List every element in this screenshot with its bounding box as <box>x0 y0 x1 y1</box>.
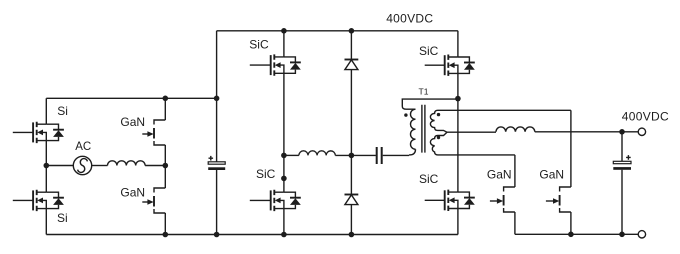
wire: sync GaN1 drain drop <box>514 155 516 187</box>
wire: PFC top rail <box>46 97 216 99</box>
AC source V1 <box>73 156 91 174</box>
wire: output cap vertical <box>621 132 623 235</box>
wire: AC source left lead <box>46 165 73 167</box>
transformer T1 primary <box>402 99 458 155</box>
transistor Q9 (GaN sync rect 1) <box>490 187 515 212</box>
svg-text:GaN: GaN <box>539 168 564 182</box>
node: GaN leg midpoint <box>163 163 169 169</box>
transistor Q5 (SiC MOSFET, HB1 high side) <box>250 54 284 75</box>
wire: GaN leg verticals <box>164 98 166 234</box>
wire: diode leg verticals <box>350 31 352 235</box>
svg-text:GaN: GaN <box>120 115 145 129</box>
wire: SiC leg1 verticals <box>283 31 285 235</box>
wire: sync GaN2 drain drop <box>570 110 572 187</box>
svg-text:Si: Si <box>57 104 68 118</box>
svg-text:400VDC: 400VDC <box>622 110 669 124</box>
wire: sync GaN2 source to rail <box>570 212 572 234</box>
svg-text:SiC: SiC <box>249 37 269 51</box>
node: GaN leg top rail junction <box>163 96 169 102</box>
wire: cap to transformer primary <box>383 154 409 156</box>
capacitor C2 (resonant, series) <box>377 147 382 164</box>
transistor Q1 (Si MOSFET, high side) <box>13 122 47 143</box>
svg-text:GaN: GaN <box>487 168 512 182</box>
node: SiC leg1 midpoint <box>281 153 287 159</box>
wire: inductor to GaN leg midpoint <box>145 165 165 167</box>
body diode of Q1 <box>46 124 64 140</box>
transistor Q2 (Si MOSFET, low side) <box>13 190 47 211</box>
transistor Q3 (GaN HEMT, high side) <box>142 120 165 145</box>
svg-text:GaN: GaN <box>120 186 145 200</box>
svg-text:AC: AC <box>75 141 91 153</box>
node: bottom rail cap junction <box>619 232 625 238</box>
body diode of Q5 <box>284 57 301 73</box>
terminal: output negative <box>638 231 645 238</box>
body diode of Q6 <box>284 192 301 208</box>
node: top rail to DC-link junction <box>214 96 220 102</box>
body diode of Q7 <box>458 57 475 73</box>
wire: SiC leg2 verticals <box>457 31 459 235</box>
node: bottom rail DC-link junction <box>214 232 220 238</box>
node: SiC leg1 top bus junction <box>281 28 287 34</box>
wire: secondary bottom rail <box>515 233 638 235</box>
inductor L3 (output filter) <box>496 127 535 132</box>
transformer T1 secondary lower <box>430 132 515 155</box>
transistor Q4 (GaN HEMT, low side) <box>142 188 165 213</box>
diode D1 (clamp, upper) <box>345 60 359 70</box>
wire: AC source to boost inductor <box>92 165 108 167</box>
wire: main bottom rail <box>46 234 458 236</box>
node: diode leg bottom rail junction <box>349 232 355 238</box>
svg-text:Si: Si <box>57 211 68 225</box>
T1 secondary upper polarity dot <box>437 113 440 116</box>
transistor Q7 (SiC MOSFET, HB2 high side) <box>425 55 458 76</box>
svg-text:SiC: SiC <box>419 44 439 58</box>
node: sync GaN2 source rail junction <box>568 232 574 238</box>
svg-text:SiC: SiC <box>256 167 276 181</box>
svg-text:SiC: SiC <box>419 172 439 186</box>
svg-text:T1: T1 <box>419 87 429 97</box>
wire: 400VDC top bus <box>217 30 458 32</box>
node: output line cap junction <box>619 129 625 135</box>
node: primary top to SiC leg2 junction <box>455 96 461 102</box>
T1 core <box>422 105 425 153</box>
capacitor C3 (output, polarized) <box>613 155 631 170</box>
terminal: output positive <box>638 128 645 135</box>
diode D2 (clamp, lower) <box>345 195 359 205</box>
inductor L1 (boost) <box>108 161 146 166</box>
transistor Q8 (SiC MOSFET, HB2 low side) <box>425 190 458 211</box>
wire: inductor to diode leg node <box>335 154 376 156</box>
wire: filter inductor to output terminal <box>535 131 638 133</box>
transformer T1 secondary upper <box>430 110 571 132</box>
body diode of Q2 <box>46 192 64 208</box>
node: SiC leg1 bottom rail junction <box>281 232 287 238</box>
node: diode leg midpoint <box>349 153 355 159</box>
wire: resonant tank link <box>284 154 299 156</box>
node: diode leg top bus junction <box>349 28 355 34</box>
transistor Q10 (GaN sync rect 2) <box>546 187 571 212</box>
node: GaN leg bottom rail junction <box>163 232 169 238</box>
capacitor C1 (DC-link, polarized) <box>208 156 225 170</box>
node: SiC leg1 lower mark <box>281 176 287 182</box>
svg-text:400VDC: 400VDC <box>386 11 433 25</box>
body diode of Q8 <box>458 192 475 208</box>
T1 secondary lower polarity dot <box>437 136 440 139</box>
wire: Si leg upper segments <box>45 98 47 234</box>
wire: output center-tap line <box>447 131 496 133</box>
wire: DC-link vertical <box>216 31 218 235</box>
T1 primary polarity dot <box>404 113 407 116</box>
transistor Q6 (SiC MOSFET, HB1 low side) <box>250 190 284 211</box>
wire: sync GaN1 source to rail <box>514 212 516 234</box>
node: AC leg midpoint <box>44 163 50 169</box>
inductor L2 (resonant) <box>299 151 335 156</box>
